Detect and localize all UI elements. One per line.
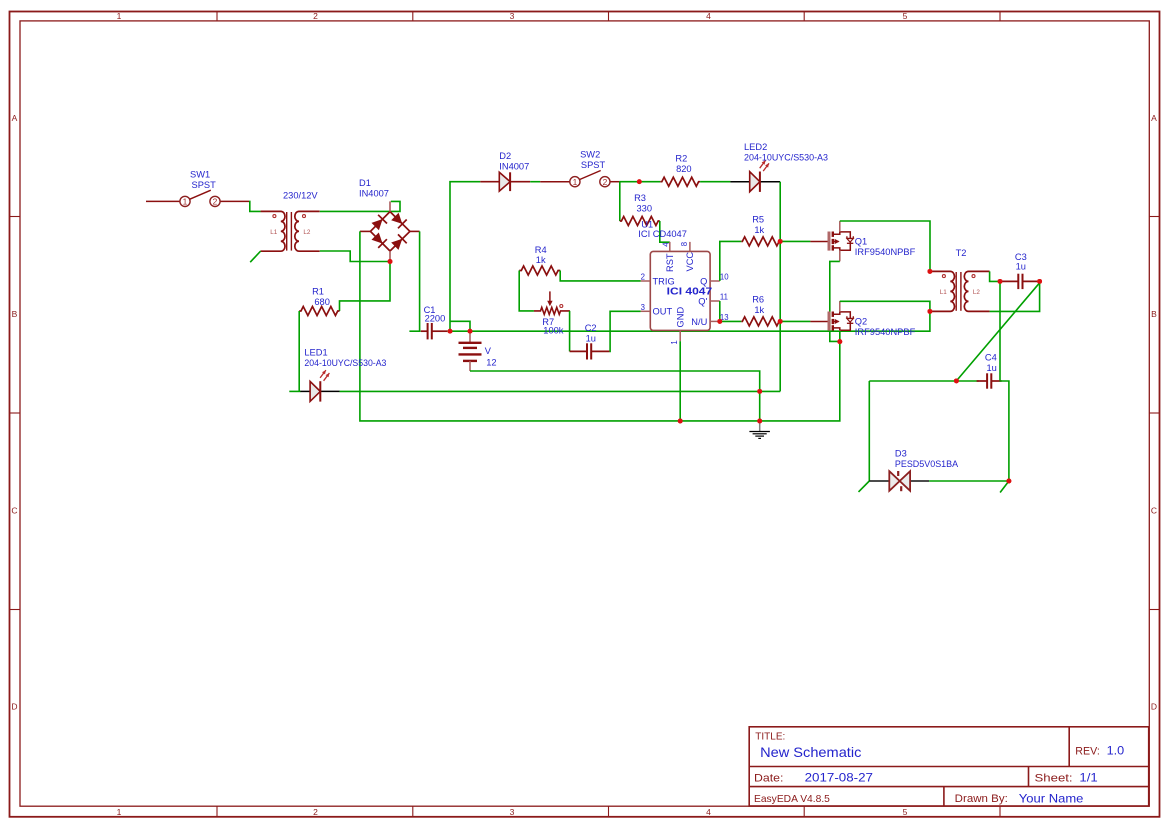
svg-text:Q: Q bbox=[700, 277, 707, 287]
switch SW2 bbox=[540, 181, 570, 183]
svg-text:R4: R4 bbox=[535, 245, 547, 255]
svg-text:820: 820 bbox=[676, 164, 692, 174]
transistor Q2 IRF9540NPBF bbox=[810, 321, 829, 323]
svg-text:IRF9540NPBF: IRF9540NPBF bbox=[855, 247, 916, 257]
svg-text:2: 2 bbox=[213, 197, 218, 207]
wire pin10 to R5 bbox=[720, 241, 742, 281]
wire LED1 to risers bbox=[340, 390, 781, 392]
svg-text:1u: 1u bbox=[987, 363, 997, 373]
svg-text:SPST: SPST bbox=[192, 180, 217, 190]
svg-text:1: 1 bbox=[670, 340, 679, 344]
wire D2 to SW2 bbox=[530, 181, 540, 183]
pin 8 VCC bbox=[689, 242, 691, 252]
wire SW1 to T1 bbox=[249, 201, 261, 211]
svg-text:2: 2 bbox=[641, 273, 645, 282]
svg-text:2: 2 bbox=[313, 807, 318, 817]
wire C4 left bbox=[869, 380, 978, 382]
wire stub output left bbox=[859, 481, 870, 492]
svg-text:1k: 1k bbox=[754, 225, 764, 235]
wire rail left stub bbox=[409, 330, 420, 332]
svg-text:4: 4 bbox=[706, 807, 711, 817]
junction pin13 bbox=[717, 319, 722, 324]
wire bridge bottom to R1 bbox=[340, 262, 391, 312]
wire C3 right to T2 bottom bbox=[990, 281, 1040, 311]
svg-text:IN4007: IN4007 bbox=[499, 162, 529, 172]
wire stub left of LED1 bbox=[289, 390, 300, 392]
pin 2 TRIG bbox=[641, 280, 651, 282]
svg-text:D2: D2 bbox=[499, 151, 511, 161]
wire Q1 source down bbox=[830, 261, 840, 341]
diode D3 PESD5V0S1BA bbox=[869, 480, 889, 482]
svg-text:SW1: SW1 bbox=[190, 170, 210, 180]
wire pin1 GND down bbox=[679, 341, 681, 421]
svg-text:New Schematic: New Schematic bbox=[760, 745, 861, 760]
wire R3 to pin4 bbox=[660, 221, 670, 242]
svg-text:R2: R2 bbox=[675, 153, 687, 163]
wire R6 to Q2 gate bbox=[780, 320, 810, 322]
svg-text:SPST: SPST bbox=[581, 160, 606, 170]
resistor R3 330 bbox=[620, 217, 660, 226]
junction rail x470 bbox=[468, 329, 473, 334]
junction battery return bbox=[757, 419, 762, 424]
svg-text:3: 3 bbox=[510, 11, 515, 21]
svg-text:B: B bbox=[1151, 309, 1157, 319]
wire bridge left to bottom rail bbox=[360, 231, 840, 421]
junction D3 right bbox=[1006, 479, 1011, 484]
svg-text:2017-08-27: 2017-08-27 bbox=[805, 771, 873, 785]
svg-text:2: 2 bbox=[313, 11, 318, 21]
svg-text:1: 1 bbox=[117, 807, 122, 817]
wire D2 drop bbox=[450, 182, 480, 332]
svg-text:1/1: 1/1 bbox=[1079, 771, 1097, 785]
pin 3 OUT bbox=[641, 310, 651, 312]
pin 13 N/U bbox=[710, 320, 720, 322]
svg-text:SW2: SW2 bbox=[580, 150, 600, 160]
capacitor C3 1u bbox=[1002, 280, 1018, 282]
svg-text:D3: D3 bbox=[895, 449, 907, 459]
title block bbox=[749, 727, 1148, 806]
svg-text:D1: D1 bbox=[359, 178, 371, 188]
svg-text:1u: 1u bbox=[1016, 261, 1026, 271]
junction C3 right bbox=[1037, 279, 1042, 284]
junction rail x450 bbox=[448, 329, 453, 334]
svg-text:TITLE:: TITLE: bbox=[755, 731, 785, 742]
svg-text:Sheet:: Sheet: bbox=[1035, 772, 1073, 784]
wire C3 left riser to C4 bbox=[999, 281, 1001, 381]
svg-text:L1: L1 bbox=[270, 229, 278, 236]
wire D3 right bbox=[929, 480, 1009, 482]
battery V 12 bbox=[469, 331, 471, 343]
wire T1 secondary bottom to bridge bbox=[320, 251, 388, 262]
potentiometer R7 100k bbox=[534, 307, 570, 314]
svg-text:A: A bbox=[1151, 113, 1157, 123]
wire Q2 source to junction bbox=[839, 331, 841, 341]
svg-text:204-10UYC/S530-A3: 204-10UYC/S530-A3 bbox=[744, 152, 828, 162]
svg-text:V: V bbox=[485, 346, 492, 356]
op-amp U1 ICI CD4047 box bbox=[650, 251, 710, 330]
svg-text:3: 3 bbox=[510, 807, 515, 817]
svg-text:L1: L1 bbox=[940, 289, 948, 296]
wire battery bottom return bbox=[470, 371, 760, 421]
svg-text:1: 1 bbox=[183, 197, 188, 207]
svg-text:GND: GND bbox=[675, 307, 685, 328]
wire C2 up to OUT bbox=[610, 311, 641, 351]
wire C4 left down to D3 bbox=[868, 381, 870, 481]
wire C4 right loop to D3 bbox=[1000, 381, 1009, 481]
pin 1 GND bbox=[679, 330, 681, 341]
svg-text:RST: RST bbox=[665, 253, 675, 272]
svg-text:3: 3 bbox=[641, 303, 645, 312]
svg-text:330: 330 bbox=[637, 204, 653, 214]
svg-text:R5: R5 bbox=[752, 215, 764, 225]
svg-text:8: 8 bbox=[680, 242, 689, 246]
svg-text:D: D bbox=[1151, 702, 1157, 712]
svg-text:2200: 2200 bbox=[425, 314, 446, 324]
wire Q1 drain to T2 bbox=[840, 221, 930, 271]
svg-text:R3: R3 bbox=[634, 193, 646, 203]
junction T2 left top bbox=[927, 269, 932, 274]
wire pin13 to R6 bbox=[720, 320, 742, 322]
wire LED2 riser down to LED1 wire bbox=[779, 182, 781, 392]
wire T2 right top to C3 bbox=[990, 271, 1000, 281]
svg-text:REV:: REV: bbox=[1075, 745, 1100, 757]
svg-text:C2: C2 bbox=[585, 323, 597, 333]
wire R4 right to TRIG bbox=[560, 271, 641, 281]
wire pin11 to pin13 bbox=[719, 301, 721, 321]
transistor Q1 IRF9540NPBF bbox=[810, 241, 829, 243]
svg-text:PESD5V0S1BA: PESD5V0S1BA bbox=[895, 459, 959, 469]
pin 4 RST bbox=[669, 242, 671, 252]
svg-text:10: 10 bbox=[720, 273, 729, 282]
svg-text:1k: 1k bbox=[536, 255, 546, 265]
LED LED2 bbox=[730, 181, 749, 183]
svg-text:A: A bbox=[12, 113, 18, 123]
transformer T1 230/12V bbox=[261, 211, 285, 251]
svg-text:TRIG: TRIG bbox=[653, 277, 675, 287]
resistor R2 820 bbox=[660, 177, 700, 186]
svg-text:Date:: Date: bbox=[754, 772, 783, 784]
wire notch to battery bbox=[450, 321, 470, 331]
svg-text:680: 680 bbox=[314, 297, 330, 307]
diode D2 IN4007 bbox=[480, 181, 499, 183]
wire diagonal C3 to C4 bbox=[956, 283, 1039, 381]
svg-text:B: B bbox=[12, 309, 18, 319]
junction GND bottom rail bbox=[678, 419, 683, 424]
svg-text:5: 5 bbox=[903, 11, 908, 21]
svg-text:N/U: N/U bbox=[691, 317, 707, 327]
junction riser R5 bbox=[778, 239, 783, 244]
junction LED1 wire / battery return bbox=[757, 389, 762, 394]
svg-text:100k: 100k bbox=[543, 326, 564, 336]
wire R7 right down to C2 bbox=[569, 311, 571, 352]
resistor R1 680 bbox=[299, 307, 339, 316]
svg-text:Q': Q' bbox=[698, 297, 707, 307]
wire Q2 drain to T2 bbox=[840, 301, 930, 311]
switch SW1 bbox=[146, 200, 180, 202]
svg-text:EasyEDA V4.8.5: EasyEDA V4.8.5 bbox=[754, 794, 830, 805]
junction T2 left bottom bbox=[927, 309, 932, 314]
svg-text:12: 12 bbox=[486, 357, 496, 367]
svg-text:230/12V: 230/12V bbox=[283, 191, 318, 201]
svg-text:Drawn By:: Drawn By: bbox=[955, 793, 1008, 805]
svg-text:IN4007: IN4007 bbox=[359, 189, 389, 199]
junction C3 left bbox=[998, 279, 1003, 284]
svg-text:L2: L2 bbox=[973, 289, 981, 296]
svg-text:T2: T2 bbox=[956, 248, 967, 258]
svg-text:5: 5 bbox=[903, 807, 908, 817]
svg-text:Q2: Q2 bbox=[855, 317, 867, 327]
resistor R5 1k bbox=[741, 237, 780, 246]
junction SW2 wire bbox=[637, 179, 642, 184]
wire SW2 to R2 bbox=[619, 181, 660, 183]
wire T1 secondary top to bridge bbox=[320, 201, 400, 211]
transformer T2 bbox=[930, 271, 955, 311]
wire stub output right bbox=[1000, 481, 1009, 493]
svg-text:Your Name: Your Name bbox=[1019, 792, 1084, 805]
svg-text:C: C bbox=[1151, 506, 1157, 516]
svg-text:LED1: LED1 bbox=[304, 348, 327, 358]
svg-text:2: 2 bbox=[603, 177, 608, 187]
svg-text:LED2: LED2 bbox=[744, 142, 767, 152]
wire R5 to Q1 gate bbox=[780, 240, 810, 242]
capacitor C1 2200 bbox=[421, 330, 428, 332]
svg-text:IRF9540NPBF: IRF9540NPBF bbox=[855, 327, 916, 337]
svg-text:VCC: VCC bbox=[685, 252, 695, 272]
capacitor C4 1u bbox=[977, 380, 988, 382]
svg-text:11: 11 bbox=[720, 293, 728, 302]
svg-text:1k: 1k bbox=[754, 305, 764, 315]
wire stub T1 primary bottom bbox=[250, 251, 261, 262]
svg-text:1: 1 bbox=[117, 11, 122, 21]
bridge rectifier D1 bbox=[370, 212, 410, 251]
junction sources bbox=[837, 339, 842, 344]
svg-text:1.0: 1.0 bbox=[1107, 744, 1125, 758]
wire R2 to LED2 bbox=[700, 181, 730, 183]
junction bridge bottom bbox=[388, 259, 393, 264]
svg-text:R1: R1 bbox=[312, 287, 324, 297]
svg-text:4: 4 bbox=[706, 11, 711, 21]
pin 11 Qbar bbox=[710, 300, 720, 302]
svg-text:1: 1 bbox=[573, 177, 578, 187]
pin 10 Q bbox=[710, 280, 720, 282]
svg-text:C: C bbox=[11, 506, 17, 516]
svg-text:ICI CD4047: ICI CD4047 bbox=[638, 229, 687, 239]
svg-text:R6: R6 bbox=[752, 295, 764, 305]
wire main rail bbox=[447, 311, 930, 331]
capacitor C2 1u bbox=[570, 350, 587, 352]
junction dots top layer bbox=[388, 259, 393, 264]
wire drop to R3 bbox=[619, 182, 621, 221]
resistor R4 1k bbox=[519, 266, 560, 275]
svg-text:204-10UYC/S530-A3: 204-10UYC/S530-A3 bbox=[304, 358, 386, 368]
wire R4 left to R7 bbox=[519, 271, 534, 311]
svg-text:Q1: Q1 bbox=[855, 237, 867, 247]
resistor R6 1k bbox=[741, 317, 780, 326]
svg-text:1u: 1u bbox=[586, 333, 596, 343]
svg-text:OUT: OUT bbox=[653, 307, 673, 317]
wire bridge right down to C1 rail bbox=[419, 231, 421, 331]
svg-text:L2: L2 bbox=[303, 229, 311, 236]
junction riser R6 bbox=[778, 319, 783, 324]
svg-text:4: 4 bbox=[661, 242, 670, 247]
LED LED1 bbox=[300, 390, 310, 392]
svg-text:C4: C4 bbox=[985, 353, 997, 363]
junction diagonal on C4 wire bbox=[954, 378, 959, 383]
svg-text:D: D bbox=[11, 702, 17, 712]
wire R1 to LED1 bbox=[298, 311, 300, 391]
ground bbox=[759, 421, 761, 431]
